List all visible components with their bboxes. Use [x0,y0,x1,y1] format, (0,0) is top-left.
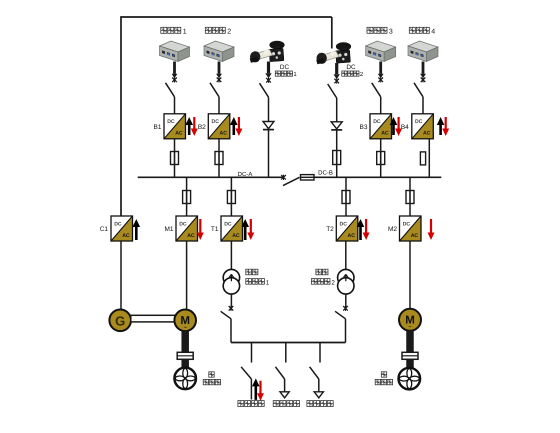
converter T2 [336,216,358,241]
converter T1 [221,216,243,241]
wire shore power lead [250,379,252,400]
battery pack 电池组2 [204,41,234,62]
diode D1 [263,122,274,129]
svg-text:T1: T1 [211,226,219,233]
wire drop shore power [251,343,253,363]
battery pack 电池组4 [408,41,438,62]
node star battery 2 [217,77,222,82]
wire diode D2 to fuse [336,130,338,151]
svg-text:AC: AC [175,131,183,137]
wire T2 to transformer 2 [345,241,347,270]
converter M2 [400,216,422,241]
wire fuse T1 to converter [230,204,232,217]
bus DC-A [138,176,284,178]
wire AC load 1 lead [284,379,286,392]
wire B3 to fuse [380,139,382,152]
fuse F-CP2 [333,151,341,165]
label 电池组4 [409,27,415,33]
converter C1 [111,216,133,241]
node star transformer 2 [343,306,348,311]
label 岸电电源 [238,401,244,407]
svg-text:B1: B1 [154,124,162,131]
wire DC-B bus to fuse T2 [345,177,347,190]
switch QS AC load 1 [275,367,284,379]
svg-text:AC: AC [122,233,130,239]
bus AC loads [231,342,346,344]
svg-text:DC: DC [114,221,122,227]
wire switch to diode CP2 [336,98,338,122]
converter B1 [164,114,186,139]
wire DC-B bus to fuse M2 [409,177,411,190]
fuse F-M2 [406,191,414,204]
converter B4 [412,114,434,139]
svg-text:4: 4 [431,29,435,36]
arrow charge port 1 [267,62,270,74]
wire B2 to fuse [218,139,220,152]
switch QS-B4 [414,83,423,97]
svg-text:DC: DC [373,119,381,125]
wire drop AC load 2 [319,343,321,363]
power flow arrows T1 [241,219,249,240]
wire switch to B4 [422,97,424,114]
switch QS-T1 [221,311,231,319]
switch QS-B2 [210,83,219,97]
arrow AC load 2 [314,392,323,398]
bus DC-B [314,176,441,178]
svg-text:AC: AC [348,233,356,239]
switch QS-CP1 [260,83,269,97]
wire drop AC load 1 [285,343,287,363]
node star battery 1 [172,77,177,82]
label 日用变压器2 [316,269,322,275]
converter B3 [370,114,392,139]
svg-text:AC: AC [381,131,389,137]
wire switch to B1 [174,97,176,114]
fuse F-B3 [377,152,385,165]
shaft coupling right [402,352,418,359]
wire fuse CP2 to DC-B bus [336,165,338,178]
fuse F-B1 [171,152,179,165]
shaft to propeller left [181,359,189,368]
transformer 日用变压器1 [223,269,239,285]
diode D2 [331,122,342,129]
svg-text:DC: DC [224,221,232,227]
shaft to propeller right [406,359,414,368]
svg-text:B4: B4 [401,124,409,131]
svg-text:DC: DC [403,221,411,227]
power flow arrows T2 [357,219,365,240]
svg-text:AC: AC [232,233,240,239]
svg-text:AC: AC [220,131,228,137]
power flow arrows B2 [230,117,238,135]
svg-text:3: 3 [389,29,393,36]
node star bus tie [281,175,286,180]
svg-text:DC: DC [280,64,290,71]
label 交流负载 right [307,401,313,407]
fuse F-B4 [420,152,425,165]
switch QS-CP2 [328,84,337,98]
svg-text:1: 1 [293,71,297,78]
label 电池组1 [161,27,167,33]
power flow arrows B3 [390,117,398,135]
wire switch T2 to AC bus [345,319,347,343]
arrow battery 1 to node [173,62,176,74]
transformer 日用变压器2 [338,269,354,285]
wire transformer 1 to switch [230,294,232,307]
svg-text:AC: AC [187,233,195,239]
shaft coupling left [177,352,193,359]
node star battery 3 [378,77,383,82]
svg-text:DC: DC [415,119,423,125]
propeller left [174,368,196,390]
arrow AC load 1 [280,392,289,398]
switch bus tie blade [283,177,300,185]
node star battery 4 [421,77,426,82]
svg-text:C1: C1 [100,226,109,233]
svg-text:DC: DC [212,119,220,125]
wire diode D1 to DC-A bus [268,129,270,178]
power flow arrow M2 [428,219,435,240]
battery pack 电池组3 [366,41,396,62]
wire fuse B1 to DC-A bus [174,165,176,178]
wire C1 to generator G [120,241,122,310]
switch QS AC load 2 [310,367,319,379]
node star charge port 2 [334,78,339,83]
wire fuse B2 to DC-A bus [218,165,220,178]
shaft motor left [181,331,189,352]
wire B4 to DC-B bus [428,139,430,178]
wire B1 to fuse [174,139,176,152]
svg-text:M1: M1 [164,226,173,233]
svg-text:AC: AC [411,233,419,239]
wire fuse M2 to converter [409,204,411,217]
fuse F-B2 [215,152,223,165]
power flow arrows shore power [252,378,260,400]
wire switch to B2 [218,97,220,114]
fuse F-M1 [183,191,191,204]
svg-text:M2: M2 [388,226,397,233]
svg-text:DC: DC [167,119,175,125]
wire switch T1 to AC bus [230,319,232,343]
power flow arrow M1 [197,219,204,240]
motor M left [174,310,196,332]
shaft coupling G-M [131,315,176,322]
label 日用变压器1 [246,269,252,275]
generator G [109,310,131,332]
switch QS-B3 [372,83,381,97]
svg-text:1: 1 [183,29,187,36]
wire switch to diode CP1 [268,97,270,121]
svg-text:G: G [115,313,125,328]
svg-text:B2: B2 [198,124,206,131]
label 电池组2 [205,27,211,33]
wire top frame bus from C1 to DC charge port 2 [120,17,122,216]
wire M1 to motor [186,241,188,310]
shaft motor right [406,331,414,353]
switch QS shore power [241,367,251,379]
wire fuse T2 to converter [345,204,347,217]
wire switch to B3 [380,97,382,114]
label 左推进器 [209,372,214,377]
svg-text:AC: AC [423,131,431,137]
arrow battery 3 to node [379,62,382,74]
arrow battery 4 to node [422,62,425,74]
arrow charge port 2 [335,63,338,74]
converter M1 [176,216,198,241]
power flow arrows B4 [437,117,445,135]
arrow battery 2 to node [218,62,221,74]
fuse F-T2 [342,191,350,204]
svg-text:~: ~ [408,325,411,331]
wire fuse B3 to DC-B bus [380,165,382,178]
DC charge port 2 plug [316,42,351,64]
svg-text:DC: DC [346,64,356,71]
svg-text:DC-A: DC-A [238,171,253,178]
wire transformer 2 to switch [345,294,347,307]
node star charge port 1 [266,78,271,83]
fuse F-TIE [301,175,315,180]
svg-text:T2: T2 [326,226,334,233]
svg-text:DC: DC [179,221,187,227]
wire DC-A bus to fuse T1 [230,177,232,190]
label 交流负载 left [273,401,279,407]
label 右推进器 [381,372,386,377]
DC charge port 1 plug [250,41,285,63]
switch QS-T2 [335,311,345,319]
switch QS-B1 [166,83,175,97]
svg-text:2: 2 [331,279,335,286]
label 电池组3 [367,27,373,33]
power flow arrows B1 [185,117,193,135]
svg-text:B3: B3 [360,124,368,131]
battery pack 电池组1 [160,41,190,62]
svg-text:1: 1 [266,279,270,286]
svg-text:2: 2 [360,71,364,78]
converter B2 [208,114,230,139]
svg-text:2: 2 [227,29,231,36]
wire M2 to motor [409,241,411,309]
wire T1 to transformer 1 [230,241,232,270]
power flow arrow C1 [133,219,141,240]
motor M right [399,309,421,331]
fuse F-T1 [227,191,235,204]
svg-text:~: ~ [184,325,187,331]
svg-text:DC: DC [340,221,348,227]
propeller right [399,368,421,390]
wire AC load 2 lead [318,379,320,392]
wire fuse M1 to converter [186,204,188,217]
node star transformer 1 [229,306,234,311]
wire DC-A bus to fuse M1 [186,177,188,190]
svg-text:DC-B: DC-B [318,169,333,176]
